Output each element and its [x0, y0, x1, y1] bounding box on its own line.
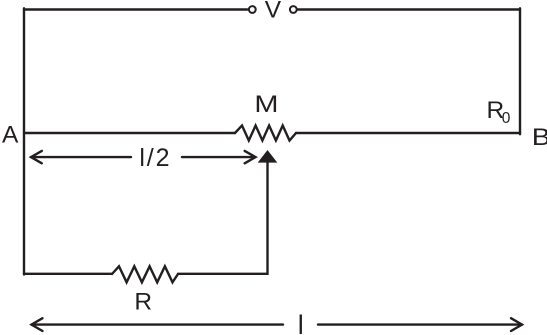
wire bottom-left loop	[24, 273, 112, 275]
dimension arrow l/2 right head	[245, 151, 256, 163]
resistor R	[112, 266, 178, 282]
svg-text:l/2: l/2	[139, 144, 171, 172]
svg-text:R: R	[134, 289, 152, 316]
dimension arrow l left head	[32, 318, 43, 331]
dimension arrow l/2 left head	[31, 151, 42, 163]
terminal circle left	[249, 6, 256, 13]
dimension arrow l/2 left line	[31, 156, 131, 158]
svg-text:M: M	[254, 90, 278, 117]
dimension arrow l right line	[318, 323, 522, 325]
dimension arrow l left line	[32, 323, 284, 325]
svg-text:B: B	[532, 123, 547, 151]
wire left vertical	[23, 8, 25, 274]
resistor M	[235, 126, 296, 141]
terminal circle right	[290, 6, 297, 13]
svg-text:R0: R0	[487, 97, 511, 127]
svg-text:V: V	[265, 0, 282, 24]
svg-text:l: l	[298, 310, 304, 335]
wire top-left segment	[24, 8, 247, 10]
wire resistor M to B	[296, 132, 520, 134]
wire top-right segment	[298, 8, 520, 10]
dimension arrow l/2 right line	[182, 156, 256, 158]
wire A to resistor M	[24, 132, 235, 134]
wire resistor R to jockey junction	[178, 162, 268, 274]
jockey contact triangle	[258, 150, 278, 163]
svg-text:A: A	[2, 121, 19, 148]
dimension arrow l right head	[511, 318, 522, 331]
wire right vertical	[519, 8, 521, 134]
